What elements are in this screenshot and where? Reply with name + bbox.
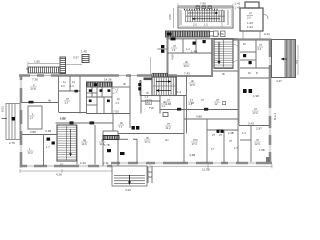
radiator fixtures centre: [132, 126, 140, 130]
svg-text:11.3B: 11.3B: [202, 168, 210, 172]
svg-text:4?: 4?: [201, 98, 204, 102]
svg-text:11.8: 11.8: [82, 142, 88, 146]
svg-text:4b: 4b: [185, 60, 188, 64]
door leaf room1: [29, 101, 34, 104]
svg-text:1.7: 1.7: [234, 146, 238, 150]
svg-text:4.50: 4.50: [171, 54, 175, 60]
svg-text:1.7: 1.7: [46, 145, 50, 149]
svg-text:4?: 4?: [249, 12, 252, 16]
sanitary block hatched head wall: [87, 82, 113, 87]
wall: wing bottom / main band top: [167, 75, 213, 77]
svg-text:2?: 2?: [219, 133, 222, 137]
svg-text:7b: 7b: [146, 91, 149, 95]
dark hatched wall centre-low: [103, 136, 119, 140]
svg-text:4?: 4?: [259, 43, 262, 47]
svg-text:1.4B: 1.4B: [166, 102, 172, 106]
wc fixtures lower-left: [47, 138, 55, 145]
wall: wing rooms top (below gallery): [167, 38, 238, 40]
svg-text:1.86: 1.86: [34, 60, 40, 64]
svg-text:4?: 4?: [256, 138, 259, 142]
sanitary fixtures: [89, 78, 153, 103]
svg-text:1b: 1b: [248, 71, 251, 75]
svg-text:2.4B: 2.4B: [228, 131, 234, 135]
svg-text:1?: 1?: [211, 147, 214, 151]
wing room partitions: [167, 39, 212, 53]
bottom-right corner step: [266, 157, 270, 162]
svg-text:4.47: 4.47: [276, 79, 282, 83]
svg-text:1.20: 1.20: [80, 161, 86, 165]
svg-text:2b: 2b: [120, 121, 123, 125]
right section WC stack: [240, 40, 269, 79]
dim 4.50 left of stair block: [173, 8, 175, 28]
svg-text:17: 17: [30, 116, 33, 120]
svg-text:4h: 4h: [146, 136, 149, 140]
svg-text:2.0: 2.0: [193, 23, 197, 27]
svg-text:4.50: 4.50: [168, 14, 172, 20]
chimney block 1: [60, 57, 66, 74]
svg-text:4b: 4b: [48, 99, 51, 103]
svg-text:12.9: 12.9: [255, 142, 261, 146]
svg-text:1.4B: 1.4B: [191, 50, 197, 54]
svg-text:12: 12: [215, 102, 218, 106]
svg-text:2?: 2?: [212, 133, 215, 137]
svg-text:4.9: 4.9: [295, 59, 299, 64]
window gaps on exterior walls: [21, 57, 270, 166]
svg-text:4.88: 4.88: [196, 115, 202, 119]
svg-text:2.97: 2.97: [256, 127, 262, 131]
section marker symbols: [161, 45, 164, 48]
svg-text:4g: 4g: [83, 138, 86, 142]
svg-text:7.90: 7.90: [200, 2, 206, 6]
top-right annex block: [240, 2, 263, 31]
right terrace with hatch: [272, 40, 296, 78]
svg-text:7.36: 7.36: [32, 78, 38, 82]
landing below stair ST3: [213, 70, 238, 72]
svg-text:4.1B: 4.1B: [45, 129, 51, 133]
entrance bay arrow: [2, 118, 8, 120]
stair ST4 (middle long stair): [152, 77, 176, 96]
svg-text:4.26: 4.26: [56, 173, 62, 177]
ramp band above left top wall: [26, 67, 60, 73]
wall: left-section bottom exterior: [20, 165, 112, 168]
svg-text:2.2: 2.2: [189, 102, 193, 106]
gallery band with hatch below stair block: [166, 31, 226, 37]
svg-text:1.76: 1.76: [218, 32, 224, 36]
door leaf corridor: [90, 121, 95, 124]
lower-left rooms: [22, 106, 57, 166]
right section lower rooms: [240, 126, 251, 163]
svg-text:7.43: 7.43: [184, 72, 190, 76]
svg-text:7b1: 7b1: [146, 101, 151, 105]
top staircase block ST2: [178, 7, 233, 28]
corridor wall above left stair: [56, 122, 114, 124]
svg-text:1.94: 1.94: [247, 25, 253, 29]
interior walls left section upper rooms: [22, 76, 87, 114]
bottom dimension line left: [20, 169, 112, 173]
svg-text:1.2: 1.2: [177, 90, 182, 94]
svg-text:1.9: 1.9: [172, 48, 176, 52]
svg-text:4.4B: 4.4B: [189, 153, 195, 157]
svg-text:12.9: 12.9: [190, 83, 196, 87]
svg-text:2.0: 2.0: [61, 84, 65, 88]
svg-text:2.1: 2.1: [116, 101, 120, 105]
svg-text:1.9B: 1.9B: [259, 148, 265, 152]
svg-text:7.00: 7.00: [113, 110, 119, 114]
right section big room: [243, 89, 252, 93]
svg-text:(7): (7): [60, 163, 63, 167]
svg-text:1.4: 1.4: [186, 47, 190, 51]
svg-text:3.57: 3.57: [73, 56, 79, 60]
svg-text:11.2: 11.2: [166, 126, 172, 130]
right section mid wall: [239, 125, 269, 127]
svg-text:TVb: TVb: [149, 106, 154, 110]
svg-text:3?3: 3?3: [193, 138, 198, 142]
sanitary block partitions: [87, 76, 161, 114]
svg-text:3.43: 3.43: [248, 122, 254, 126]
terrace right dim: [297, 45, 299, 75]
wall: wing/main junction: [211, 38, 213, 76]
svg-text:12: 12: [72, 80, 75, 84]
svg-text:B 2.4: B 2.4: [273, 113, 277, 120]
svg-text:1.98: 1.98: [253, 94, 259, 98]
svg-text:1.7B: 1.7B: [104, 143, 110, 147]
svg-text:2.11: 2.11: [103, 161, 109, 165]
dim line 1.86 above ramp: [28, 62, 82, 68]
wall: right-section right exterior: [269, 39, 272, 163]
svg-text:1.6: 1.6: [70, 84, 74, 88]
entrance bay left with ramp rails: [6, 104, 20, 140]
central band rooms: [160, 96, 238, 164]
svg-text:4?: 4?: [216, 98, 219, 102]
corridor and door arcs right of ST3: [233, 44, 239, 50]
svg-text:1b: 1b: [243, 42, 246, 46]
svg-text:4h: 4h: [123, 82, 126, 86]
stair ST3 (right section main stair): [214, 39, 233, 69]
bottom dimension line right: [150, 164, 272, 168]
svg-text:2.3: 2.3: [258, 47, 262, 51]
wall: left-section top exterior: [19, 74, 177, 77]
svg-text:1.90: 1.90: [60, 117, 66, 121]
wall: centre/right bottom exterior: [111, 162, 272, 165]
chimney block 2: [82, 55, 89, 63]
vents on top of stair block: [196, 6, 212, 9]
svg-text:17.3: 17.3: [192, 142, 198, 146]
svg-text:3?: 3?: [229, 139, 232, 143]
annex door arc: [263, 14, 268, 19]
svg-text:30.9: 30.9: [184, 64, 190, 68]
svg-text:1.7: 1.7: [65, 101, 69, 105]
porch with steps (bottom centre): [112, 166, 147, 186]
svg-text:1.45: 1.45: [81, 50, 87, 54]
svg-text:4b: 4b: [191, 79, 194, 83]
svg-text:1b: 1b: [117, 97, 120, 101]
svg-text:3?: 3?: [167, 122, 170, 126]
rooms right of left stair: [77, 114, 113, 165]
svg-text:17.8: 17.8: [31, 87, 37, 91]
wall: corridor right of big stair: [238, 39, 240, 125]
entrance bay door mark: [12, 117, 16, 121]
svg-text:4b: 4b: [222, 72, 225, 76]
svg-text:2.88: 2.88: [30, 130, 36, 134]
svg-text:7.7: 7.7: [119, 125, 123, 129]
svg-text:4?: 4?: [173, 44, 176, 48]
svg-text:17.2: 17.2: [253, 111, 259, 115]
svg-text:14.36: 14.36: [104, 78, 112, 82]
wall: wing left exterior: [167, 37, 169, 75]
walls around mid stair: [140, 76, 187, 134]
svg-text:2.75: 2.75: [9, 141, 15, 145]
fixtures below: [107, 149, 125, 155]
svg-text:4?: 4?: [167, 98, 170, 102]
svg-text:17.2: 17.2: [28, 151, 34, 155]
wall: left-section left exterior: [20, 75, 23, 168]
stair ST1 (left, down flights): [57, 125, 77, 161]
svg-text:1.5: 1.5: [204, 23, 208, 27]
svg-text:4.26: 4.26: [125, 188, 131, 192]
mid rooms walls: [87, 108, 185, 166]
svg-text:4?: 4?: [254, 107, 257, 111]
svg-text:1?: 1?: [190, 98, 193, 102]
hatched wall segment under wing: [152, 73, 168, 77]
svg-text:8.03: 8.03: [1, 106, 5, 112]
svg-text:1.3: 1.3: [242, 131, 246, 135]
side steps right of porch: [148, 166, 152, 183]
svg-text:2.41: 2.41: [264, 32, 270, 36]
svg-text:4?: 4?: [66, 97, 69, 101]
svg-text:17.4: 17.4: [145, 140, 151, 144]
porch arrow: [129, 175, 131, 185]
svg-text:2.6: 2.6: [247, 16, 251, 20]
wall: right-section top exterior: [233, 38, 271, 40]
svg-text:1.43: 1.43: [235, 6, 241, 10]
canopy line left of wing: [150, 57, 152, 75]
